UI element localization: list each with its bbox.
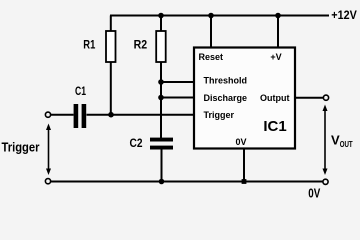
svg-text:C1: C1 [75, 86, 86, 98]
svg-text:Output: Output [260, 93, 290, 103]
svg-text:OUT: OUT [340, 140, 353, 149]
svg-text:V: V [331, 132, 340, 147]
svg-text:Trigger: Trigger [2, 141, 40, 155]
svg-text:+12V: +12V [331, 8, 357, 22]
svg-text:C2: C2 [130, 136, 143, 150]
svg-text:Threshold: Threshold [204, 75, 248, 85]
svg-text:Discharge: Discharge [204, 93, 248, 103]
svg-text:R2: R2 [134, 39, 148, 51]
svg-text:0V: 0V [235, 137, 246, 147]
svg-text:Trigger: Trigger [204, 110, 235, 120]
svg-text:0V: 0V [308, 186, 321, 200]
svg-text:Reset: Reset [199, 52, 224, 62]
svg-text:+V: +V [270, 52, 281, 62]
svg-text:IC1: IC1 [263, 118, 286, 135]
svg-text:R1: R1 [83, 39, 95, 51]
